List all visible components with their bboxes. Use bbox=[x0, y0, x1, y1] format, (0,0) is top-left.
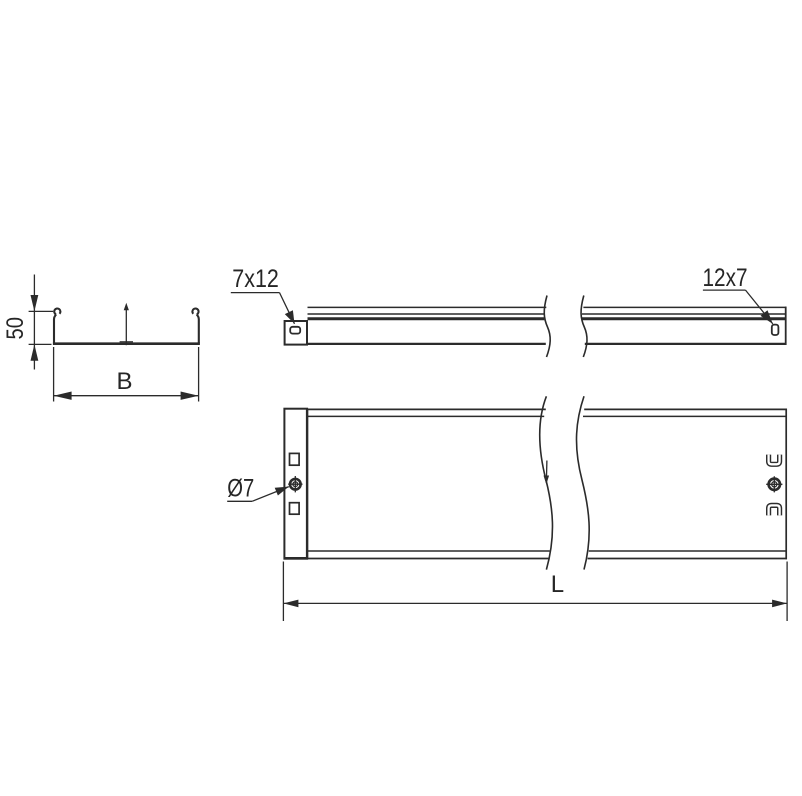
side view flange thick line left half bbox=[308, 317, 545, 320]
svg-text:B: B bbox=[117, 368, 133, 395]
cross-section left wall with curl bbox=[54, 308, 60, 343]
dimension L line bbox=[283, 602, 787, 604]
label 7x12 leader bbox=[280, 293, 295, 324]
dimension B arrow left bbox=[54, 392, 72, 400]
dimension B extension line right bbox=[198, 347, 200, 402]
plan hole target left ring bbox=[290, 479, 301, 490]
label D7 underline bbox=[227, 500, 252, 502]
side view top lip line left half bbox=[308, 306, 547, 308]
cross-section profile bottom bbox=[53, 342, 200, 345]
dimension L arrow left bbox=[283, 600, 298, 608]
side view break line right bbox=[581, 296, 587, 358]
svg-text:L: L bbox=[551, 571, 564, 598]
plan view right end edge bbox=[785, 409, 787, 560]
side view bottom line right half bbox=[585, 343, 787, 345]
label D7 arrowhead bbox=[275, 487, 289, 496]
side view bottom line left half bbox=[307, 343, 546, 345]
side view end plate bbox=[285, 321, 307, 345]
side view slot 7x12 bbox=[290, 327, 300, 334]
plan view end plate right edge thick bbox=[306, 409, 308, 559]
label D7 leader bbox=[252, 487, 289, 502]
plan square hole upper bbox=[290, 453, 300, 465]
side view top lip line right half bbox=[583, 306, 786, 308]
dimension B arrow right bbox=[181, 392, 199, 400]
plan view end plate bbox=[284, 409, 307, 559]
dimension L arrow right bbox=[772, 600, 787, 608]
dimension 50 arrow bottom bbox=[31, 344, 39, 360]
seam tick bbox=[120, 341, 133, 343]
plan target right inner circle bbox=[772, 482, 777, 487]
label 7x12 underline bbox=[231, 292, 280, 294]
plan target right ring bbox=[769, 479, 780, 490]
plan view break line right bbox=[576, 396, 589, 569]
plan U slot lower bbox=[769, 505, 780, 515]
side view slot 12x7 bbox=[772, 325, 779, 335]
dimension 50 line bbox=[33, 275, 35, 370]
plan view bottom outer line right half bbox=[588, 558, 787, 560]
dimension 50 extension line top bbox=[29, 310, 54, 312]
plan view top outer line left half bbox=[307, 408, 546, 410]
plan view top inner line left half bbox=[308, 415, 544, 417]
plan view bottom inner line left half bbox=[308, 550, 550, 552]
plan view top outer line right half bbox=[584, 408, 787, 410]
label 12x7 leader bbox=[746, 290, 773, 324]
plan flow arrow bbox=[546, 461, 548, 478]
dimension 50 extension line bottom bbox=[29, 343, 52, 345]
side view break line left bbox=[544, 296, 550, 358]
side view lip bottom line left half bbox=[308, 313, 545, 315]
dimension 50 arrow top bbox=[31, 295, 39, 311]
svg-text:50: 50 bbox=[2, 317, 29, 340]
plan target right cross bbox=[766, 476, 782, 492]
plan view break line left bbox=[540, 396, 553, 569]
center datum arrow bbox=[125, 308, 127, 345]
svg-text:7x12: 7x12 bbox=[232, 265, 278, 293]
plan U slot upper bbox=[769, 455, 780, 465]
dimension B line bbox=[54, 395, 199, 397]
dimension L extension line left bbox=[282, 562, 284, 622]
label 7x12 arrowhead bbox=[285, 310, 295, 324]
cross-section right wall with curl bbox=[192, 308, 198, 343]
plan square hole lower bbox=[290, 503, 300, 515]
side view flange thick line right half bbox=[582, 317, 786, 320]
plan view bottom inner line right half bbox=[589, 550, 786, 552]
plan hole target left inner circle bbox=[293, 482, 298, 487]
plan view end plate bottom thick bbox=[284, 557, 308, 559]
svg-text:12x7: 12x7 bbox=[703, 264, 748, 292]
side view lip bottom line right half bbox=[582, 313, 786, 315]
svg-text:Ø7: Ø7 bbox=[227, 475, 254, 503]
label 12x7 arrowhead bbox=[761, 310, 773, 324]
dimension B extension line left bbox=[53, 347, 55, 402]
side view right end edge bbox=[785, 307, 787, 345]
plan view top inner line right half bbox=[583, 415, 786, 417]
label 12x7 underline bbox=[703, 289, 746, 291]
dimension L extension line right bbox=[786, 562, 788, 622]
plan view bottom outer line left half bbox=[308, 558, 549, 560]
plan hole target left cross bbox=[288, 476, 302, 492]
